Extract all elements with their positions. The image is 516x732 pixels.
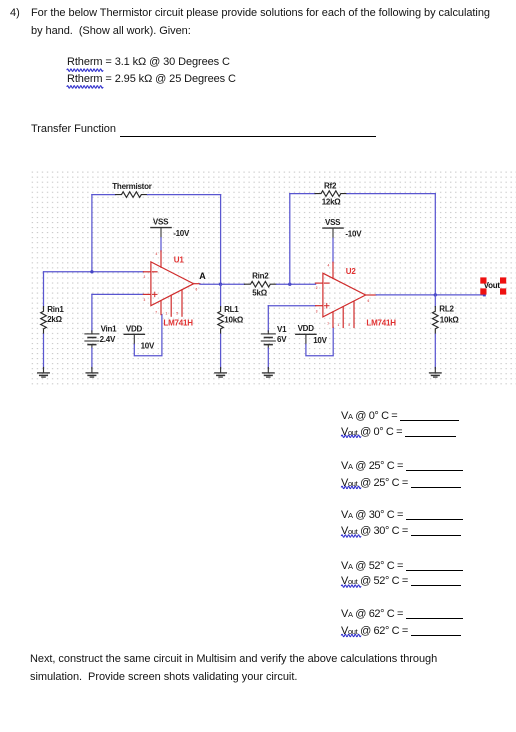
svg-text:3: 3: [316, 310, 318, 314]
wire: RL1 top: [220, 284, 222, 306]
svg-text:VSS: VSS: [325, 218, 341, 227]
op-amp U1: [143, 251, 200, 316]
wire: U1 output to node A: [200, 283, 221, 285]
wire: inverting input net: [44, 271, 144, 273]
wire: RL2 top: [434, 295, 436, 307]
resistor RL2: [433, 307, 439, 334]
battery Vin1: [85, 331, 99, 348]
junction: thermistor/inverting input: [90, 270, 93, 273]
wire: U2 output: [376, 294, 484, 296]
svg-text:6: 6: [368, 299, 370, 303]
svg-text:RL2: RL2: [439, 305, 454, 314]
svg-text:10V: 10V: [141, 341, 155, 350]
svg-text:V1: V1: [277, 325, 287, 334]
svg-text:VDD: VDD: [298, 324, 315, 333]
ground (Vin1): [86, 368, 98, 378]
ground (RL1): [215, 368, 227, 378]
power rail VDD (left): [124, 334, 144, 344]
power rail VSS (right): [323, 228, 343, 238]
svg-text:VDD: VDD: [126, 324, 143, 333]
wire: VSS to U1 V- pin: [160, 238, 162, 252]
squiggle under Rtherm (line 2): [67, 86, 103, 89]
thermistor (feedback resistor): [116, 192, 148, 198]
ground (Rin1): [38, 368, 50, 378]
wire: U2 non-inverting horizontal: [268, 305, 315, 307]
svg-text:10V: 10V: [313, 336, 327, 345]
svg-text:Vin1: Vin1: [101, 325, 118, 334]
wire: RL1 bottom: [220, 334, 222, 368]
Vout selection handle bottom-left: [480, 288, 486, 294]
wire: U2 non-inverting vertical to V1: [267, 306, 269, 332]
wire: thermistor top-left horizontal: [92, 194, 116, 196]
svg-text:4: 4: [328, 263, 330, 267]
wire: VDD to U2 V+ pin: [306, 327, 333, 355]
squiggle under Vout @ 62 deg C: [341, 634, 361, 637]
ground (RL2): [430, 368, 442, 378]
battery V1: [261, 331, 275, 348]
squiggle under Vout @ 25 deg C: [341, 486, 361, 489]
wire: Rf2 top-right horizontal: [347, 193, 435, 195]
svg-text:2.4V: 2.4V: [100, 335, 116, 344]
svg-text:5: 5: [348, 323, 350, 327]
wire: V1 bottom: [267, 348, 269, 368]
svg-text:RL1: RL1: [224, 305, 239, 314]
svg-text:VSS: VSS: [153, 217, 169, 226]
transfer function label: [31, 120, 116, 138]
svg-text:-10V: -10V: [345, 230, 362, 239]
svg-text:2kΩ: 2kΩ: [47, 315, 62, 324]
resistor Rf2: [315, 191, 347, 197]
op-amp U2: [316, 262, 377, 327]
junction: node A: [219, 283, 222, 286]
svg-text:U2: U2: [346, 267, 357, 276]
transfer function blank line: [120, 135, 376, 137]
squiggle under Vout @ 30 deg C: [341, 535, 361, 538]
svg-text:U1: U1: [174, 255, 185, 264]
junction: RL2 tap: [434, 293, 437, 296]
wire: Vin1 bottom: [91, 348, 93, 368]
resistor Rin1: [41, 307, 47, 334]
svg-text:Rf2: Rf2: [324, 181, 337, 190]
top problem text: [10, 4, 20, 22]
wire: Rin1 bottom: [43, 334, 45, 368]
Vout selection handle top-right: [500, 277, 506, 283]
dotted grid background: [31, 170, 516, 388]
wire: thermistor top-right horizontal: [148, 194, 221, 196]
wire: non-inverting input horizontal: [92, 293, 143, 295]
squiggle under Vout @ 52 deg C: [341, 585, 361, 588]
svg-text:Thermistor: Thermistor: [112, 182, 151, 191]
squiggle under Vout @ 0 deg C: [341, 435, 361, 438]
ground (V1): [263, 368, 275, 378]
Vout selection handle top-left: [480, 277, 486, 283]
U2 pin numbers: [316, 263, 370, 327]
Vout selection handle bottom-right: [500, 288, 506, 294]
svg-text:6: 6: [196, 288, 198, 292]
svg-text:2: 2: [144, 275, 146, 279]
svg-text:A: A: [199, 271, 206, 281]
svg-text:-10V: -10V: [173, 229, 190, 238]
wire: thermistor right vertical to node A: [220, 195, 222, 285]
wire: Rf2 left vertical: [289, 194, 291, 285]
wire: thermistor left vertical: [91, 195, 93, 272]
svg-text:7: 7: [327, 322, 329, 326]
wire: non-inverting input vertical to Vin1: [91, 294, 93, 331]
svg-text:1: 1: [338, 323, 340, 327]
resistor Rin2: [245, 281, 277, 287]
svg-text:2: 2: [316, 286, 318, 290]
svg-text:1: 1: [166, 312, 168, 316]
given values: [67, 54, 236, 87]
wire: VSS to U2 V- pin: [332, 238, 334, 262]
svg-text:10kΩ: 10kΩ: [224, 315, 244, 324]
svg-text:5kΩ: 5kΩ: [252, 289, 267, 298]
wire: RL2 bottom: [434, 334, 436, 368]
bottom paragraph: [30, 650, 437, 686]
svg-text:Rin2: Rin2: [252, 272, 269, 281]
wire: Rin2 right: [277, 283, 316, 285]
svg-text:10kΩ: 10kΩ: [440, 315, 460, 324]
resistor RL1: [218, 307, 224, 334]
junction: Rf2 tap: [288, 283, 291, 286]
svg-text:5: 5: [176, 312, 178, 316]
svg-text:3: 3: [144, 298, 146, 302]
U1 pin numbers: [144, 252, 198, 316]
wire: Rf2 right vertical to output: [434, 194, 436, 295]
power rail VSS (left): [151, 228, 171, 238]
svg-text:12kΩ: 12kΩ: [322, 198, 342, 207]
answer lines: [341, 410, 459, 422]
svg-text:LM741H: LM741H: [163, 318, 193, 327]
svg-text:7: 7: [155, 311, 157, 315]
squiggle under Rtherm (line 1): [67, 69, 103, 72]
svg-text:4: 4: [156, 252, 158, 256]
wire: Rin1 top: [43, 272, 45, 307]
power rail VDD (right): [296, 334, 316, 344]
wire: Rin2 left: [221, 283, 245, 285]
wire: VDD to U1 V+ pin: [134, 315, 162, 356]
wire: Rf2 top-left horizontal: [290, 193, 315, 195]
wire end terminal (Vout): [483, 294, 486, 297]
svg-text:LM741H: LM741H: [366, 319, 396, 328]
svg-text:Rin1: Rin1: [47, 305, 64, 314]
svg-text:6V: 6V: [277, 335, 287, 344]
